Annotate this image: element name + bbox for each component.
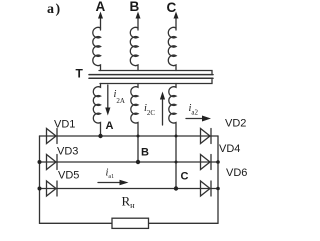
svg-text:i2A: i2A <box>114 89 125 105</box>
svg-text:ia1: ia1 <box>106 168 115 181</box>
svg-text:A: A <box>106 120 114 132</box>
svg-text:C: C <box>181 171 189 183</box>
svg-text:T: T <box>76 67 84 81</box>
svg-text:VD3: VD3 <box>57 145 78 157</box>
svg-text:a): a) <box>47 2 62 17</box>
svg-text:i2C: i2C <box>144 103 155 117</box>
svg-text:C: C <box>167 0 177 15</box>
svg-text:VD5: VD5 <box>58 170 79 182</box>
svg-text:B: B <box>130 0 140 14</box>
svg-text:Rн: Rн <box>122 194 136 211</box>
svg-text:VD6: VD6 <box>226 167 247 179</box>
svg-text:A: A <box>96 0 106 14</box>
svg-text:B: B <box>141 147 149 159</box>
svg-text:VD4: VD4 <box>219 143 240 155</box>
svg-text:ia2: ia2 <box>189 103 199 117</box>
svg-text:VD1: VD1 <box>54 118 75 130</box>
svg-text:VD2: VD2 <box>225 118 246 130</box>
